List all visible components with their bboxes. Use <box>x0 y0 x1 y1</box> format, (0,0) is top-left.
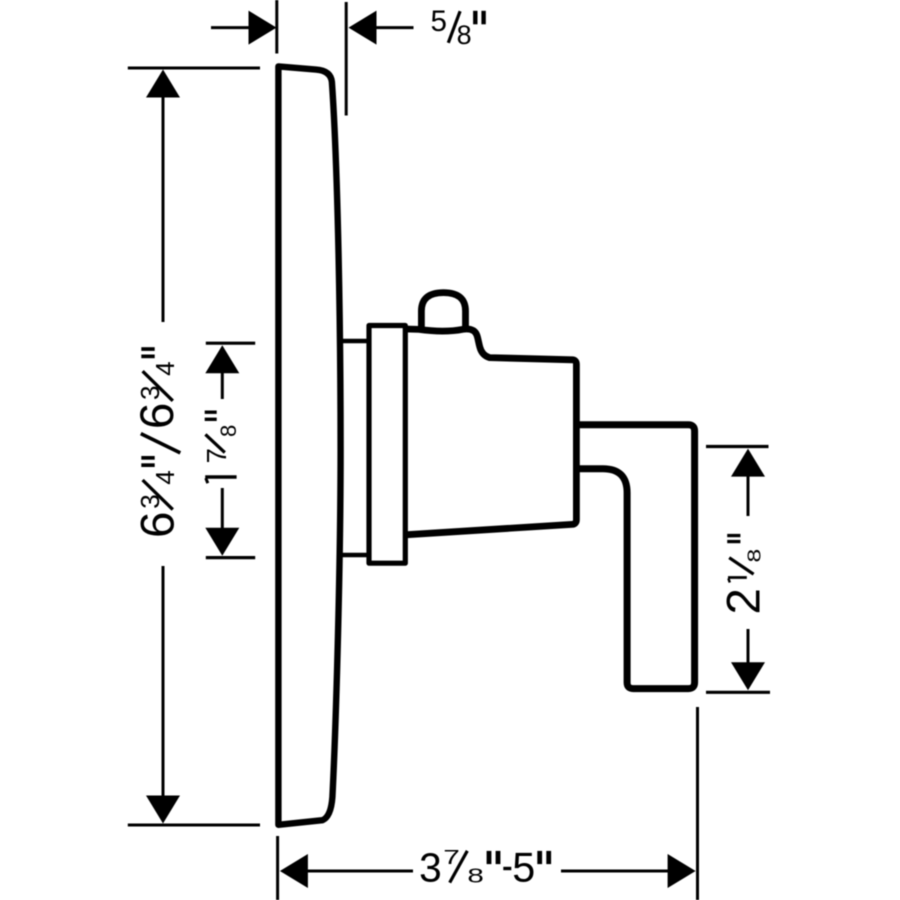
svg-text:2: 2 <box>718 588 771 614</box>
dim 2-1/8: down arrowhead <box>731 662 765 690</box>
dim 2-1/8: upper stem <box>747 474 750 516</box>
dim 5/8: right arrow line <box>375 26 414 29</box>
dim 1-7/8: bottom tick line <box>206 556 255 559</box>
svg-text:6: 6 <box>131 512 184 538</box>
svg-text:8: 8 <box>744 549 765 563</box>
dim 3-7/8 to 5: right arrowhead <box>668 854 696 888</box>
dim 6-3/4: top tick line <box>128 67 260 70</box>
dim 5/8: right extension line <box>345 2 348 116</box>
dim 1-7/8: upper stem <box>221 372 224 400</box>
dim 6-3/4: upper stem <box>162 96 165 322</box>
dim 5/8: left arrowhead <box>249 11 277 45</box>
dim 2-1/8: lower stem <box>747 629 750 666</box>
svg-text:8: 8 <box>467 865 483 887</box>
dim 3-7/8 to 5: left arrowhead <box>280 854 308 888</box>
lower wall-contact line between plate and flange <box>339 553 368 558</box>
valve sleeve flange <box>369 326 405 564</box>
dim 5/8: left arrow line <box>211 26 250 29</box>
dim 2-1/8: up arrowhead <box>731 449 765 477</box>
trim plate (escutcheon, side profile) <box>278 66 340 824</box>
svg-text:4: 4 <box>150 470 180 485</box>
svg-text:7: 7 <box>201 448 232 463</box>
dim 3-7/8 to 5: left arrow line <box>306 870 413 873</box>
lever handle <box>579 425 695 689</box>
dim 3-7/8 to 5: right arrow line <box>561 870 670 873</box>
svg-text:5: 5 <box>512 844 535 890</box>
dim label 1 7/8 inch (rotated) <box>205 475 236 478</box>
dim 6-3/4: up arrowhead <box>146 70 180 98</box>
dim 3-7/8 to 5: left extension line <box>276 836 279 900</box>
stop knob on top of valve body <box>421 293 465 328</box>
svg-text:3: 3 <box>419 844 442 890</box>
svg-text:4: 4 <box>150 361 180 376</box>
dim 5/8: left extension line <box>275 0 278 54</box>
svg-text:8: 8 <box>216 425 241 437</box>
valve body outline <box>405 329 576 535</box>
dim 6-3/4: down arrowhead <box>146 796 180 824</box>
dim 1-7/8: lower stem <box>221 488 224 530</box>
dim 2-1/8: top tick line <box>706 445 769 448</box>
svg-text:7: 7 <box>443 846 460 868</box>
upper wall-contact line between plate and flange <box>339 339 368 344</box>
dim 1-7/8: top tick line <box>206 342 255 345</box>
svg-text:5: 5 <box>431 5 447 38</box>
svg-text:8: 8 <box>457 20 472 50</box>
svg-text:6: 6 <box>131 403 184 430</box>
dim 5/8: right arrowhead <box>349 11 377 45</box>
dim 3-7/8 to 5: right extension line <box>696 707 699 900</box>
dim 6-3/4: bottom tick line <box>128 824 260 827</box>
dim 6-3/4: lower stem <box>162 566 165 798</box>
dim 1-7/8: down arrowhead <box>205 528 239 556</box>
dim 1-7/8: up arrowhead <box>205 345 239 373</box>
dim 2-1/8: bottom tick line <box>706 691 770 694</box>
